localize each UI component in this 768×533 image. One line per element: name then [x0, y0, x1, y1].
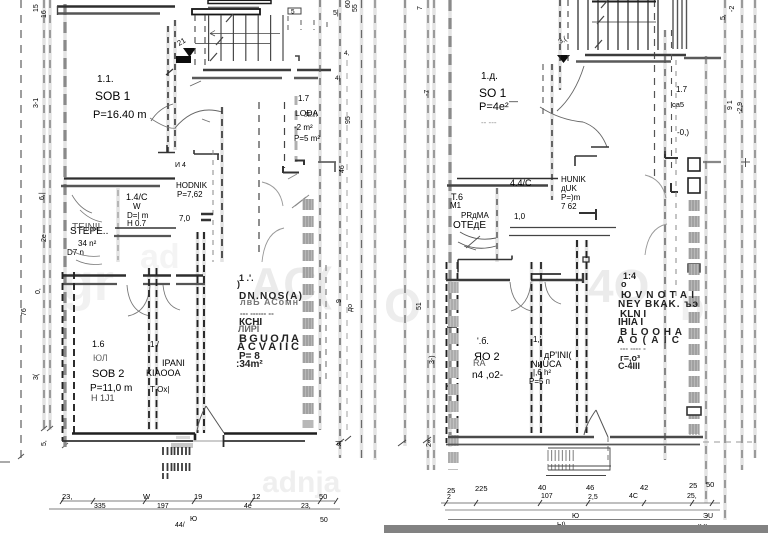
svg-text:225: 225 — [475, 484, 488, 493]
room label stepenice — [67, 222, 108, 257]
svg-text:SO 1: SO 1 — [479, 86, 507, 100]
svg-text:Ю: Ю — [190, 516, 197, 523]
bottom gray bar — [384, 525, 768, 533]
svg-text:95: 95 — [345, 116, 352, 124]
svg-text:2: 2 — [447, 494, 451, 501]
svg-text:OTEдE: OTEдE — [453, 220, 486, 231]
loggia corner2 right plan — [671, 183, 678, 192]
svg-text:23,: 23, — [301, 503, 311, 510]
dimension line row2 right — [445, 509, 720, 511]
terrace door swing — [197, 406, 224, 433]
room label kupaonica — [146, 340, 185, 394]
room label hodnik right — [561, 175, 587, 211]
svg-text:PRдMA: PRдMA — [461, 211, 489, 220]
wall soba2 top thick right — [446, 273, 583, 283]
wall piece above soba2 right — [458, 256, 512, 273]
door threshold gray — [171, 443, 193, 448]
svg-text:'.б.: '.б. — [477, 336, 489, 346]
svg-text:107: 107 — [541, 493, 553, 500]
svg-text:5|: 5| — [333, 10, 339, 17]
projection line left margin — [20, 0, 22, 458]
door jamb hodnik — [201, 214, 213, 220]
wall dashed soba2 left pair right-plan — [446, 262, 448, 443]
stairs top bar — [592, 1, 656, 3]
dim numbers right row3 — [557, 513, 713, 530]
kupaonica door swing — [163, 285, 180, 310]
stairs walk line — [195, 43, 270, 45]
svg-text:-2,9: -2,9 — [737, 102, 744, 114]
dimension line row1 right — [441, 502, 720, 504]
svg-text:LOĐA: LOĐA — [295, 108, 318, 118]
stairs treads right plan — [578, 0, 658, 50]
room label dnevni right — [617, 271, 698, 371]
stairs arrow — [557, 55, 570, 63]
loggia wall seg — [703, 161, 721, 163]
wall dashed kupaonica right pair — [576, 240, 578, 433]
door jambs right edge — [688, 158, 700, 171]
svg-text:1.6: 1.6 — [92, 339, 105, 349]
projection line right-plan left margin — [404, 0, 406, 446]
loggia corner right plan — [665, 151, 678, 158]
svg-text:1.д.: 1.д. — [481, 71, 498, 82]
svg-text:И 4: И 4 — [175, 162, 186, 169]
svg-text:С-4ІІІ: С-4ІІІ — [618, 361, 640, 371]
projection line — [724, 0, 726, 520]
room label hodnik — [176, 181, 208, 223]
wall corner ne right — [575, 147, 609, 166]
projection line — [433, 0, 435, 470]
soba2 door swing — [127, 285, 150, 316]
room label wc — [126, 192, 149, 228]
entry door swing — [151, 81, 222, 128]
svg-text:P=)m: P=)m — [561, 193, 581, 202]
svg-text:3-1: 3-1 — [33, 98, 40, 108]
wall wc top thick right — [447, 184, 548, 187]
room label kupaonica right — [529, 335, 571, 386]
wall nib above loggia — [295, 56, 299, 61]
stairs landing bar — [208, 0, 271, 3]
dashed line x654 — [654, 0, 656, 180]
svg-text:1 .'.: 1 .'. — [239, 273, 254, 283]
svg-text:P=5 п: P=5 п — [529, 377, 550, 386]
svg-text:23,: 23, — [62, 492, 72, 501]
svg-text:P=4е²: P=4е² — [479, 101, 509, 113]
wc left dashed wall — [117, 190, 119, 260]
svg-text:3-): 3-) — [429, 355, 436, 364]
margin dashed right — [361, 0, 363, 458]
wall bottom outer right — [448, 436, 703, 439]
svg-text:42: 42 — [640, 483, 648, 492]
corner tick — [166, 69, 173, 75]
wall living top inner — [192, 77, 318, 80]
stairs mid line — [210, 31, 280, 37]
svg-text:H 0.7: H 0.7 — [127, 219, 147, 228]
corridor right dashed wall 2 — [212, 150, 214, 262]
room label soba2 — [90, 339, 132, 403]
svg-text:-7: -7 — [424, 90, 431, 96]
dimension line row2 — [49, 508, 340, 510]
svg-text:25,: 25, — [687, 493, 697, 500]
svg-text:3(: 3( — [33, 373, 40, 380]
svg-text:4С: 4С — [629, 493, 638, 500]
svg-text:7,0: 7,0 — [179, 214, 191, 223]
svg-text:2,5: 2,5 — [588, 494, 598, 501]
svg-text:Ю: Ю — [572, 513, 579, 520]
svg-text:P=7,62: P=7,62 — [177, 190, 203, 199]
loggia corner left — [283, 166, 299, 173]
terrace door swing big right — [645, 175, 667, 255]
svg-text:1,': 1,' — [533, 335, 542, 344]
svg-text:—: — — [509, 96, 518, 106]
svg-text:SOB 2: SOB 2 — [92, 368, 124, 380]
room label stepenice right — [450, 192, 489, 231]
svg-text:ЮЛ: ЮЛ — [93, 353, 108, 363]
svg-text:7: 7 — [417, 6, 424, 10]
stairs thin line between bars — [208, 6, 259, 8]
projection line — [664, 30, 666, 460]
corridor right dashed wall — [221, 107, 223, 262]
svg-text:6,|: 6,| — [39, 192, 46, 200]
projection line — [43, 0, 45, 430]
kupaonica door swing right — [545, 282, 561, 304]
room label soba1 right — [479, 71, 518, 127]
dim numbers row3 — [175, 516, 328, 529]
svg-text:44/: 44/ — [175, 522, 185, 529]
dimension line row1 — [61, 500, 335, 502]
svg-text:TEINII: TEINII — [72, 222, 100, 233]
svg-text:7 62: 7 62 — [561, 202, 577, 211]
watermark — [62, 238, 704, 499]
wall soba1 top inner — [57, 12, 160, 15]
svg-text:о: о — [621, 279, 627, 289]
wall axis wide dashed — [448, 0, 451, 447]
svg-text:46: 46 — [586, 483, 594, 492]
loggia label right — [672, 85, 689, 137]
dimension ticks right — [444, 500, 714, 506]
svg-text:лвЬ АСомн: лвЬ АСомн — [240, 297, 298, 307]
dimension ticks — [60, 498, 338, 504]
wall corner mid right — [579, 209, 596, 220]
stairs entry block — [176, 56, 191, 63]
wall bottom inner — [62, 440, 305, 442]
svg-text:46: 46 — [339, 165, 346, 173]
svg-text:--- ---- -: --- ---- - — [620, 344, 646, 353]
dashed line x347 gray — [346, 60, 348, 430]
svg-text:4е: 4е — [244, 503, 252, 510]
room label dnevni boravak — [236, 273, 302, 370]
svg-text:-- ---: -- --- — [481, 118, 497, 127]
stair dashed sides — [559, 0, 561, 90]
svg-text:ІPANI: ІPANI — [162, 358, 185, 368]
svg-text:1.7: 1.7 — [676, 85, 688, 94]
hatch wall top of loggia right — [673, 0, 687, 49]
svg-text:50: 50 — [319, 492, 327, 501]
stair side dashed — [167, 26, 169, 152]
svg-text:Т Ox|: Т Ox| — [150, 385, 169, 394]
dashed loggia west jamb — [258, 102, 260, 258]
svg-text:-0,): -0,) — [677, 128, 689, 137]
exterior steps right — [548, 450, 573, 470]
stairs mid line — [592, 21, 656, 23]
wall dashed kupaonica right pair — [197, 232, 199, 433]
svg-text:9: 9 — [336, 299, 343, 303]
dim numbers right row2 — [447, 493, 697, 501]
svg-text:HUNIK: HUNIK — [561, 175, 587, 184]
svg-text:15: 15 — [33, 4, 40, 12]
loggia west wall axis — [295, 96, 298, 162]
svg-text:5,: 5, — [41, 440, 48, 446]
end ticks mid — [336, 436, 431, 446]
stair scribbles right — [458, 232, 496, 250]
hatched wall band right-plan left — [448, 282, 458, 470]
soba2 door swing right — [510, 282, 531, 311]
svg-text:W: W — [133, 202, 141, 211]
below-wall dash x608 — [607, 437, 609, 460]
svg-text:1 /: 1 / — [150, 340, 160, 349]
svg-text:): ) — [237, 279, 240, 289]
svg-text:1.1.: 1.1. — [97, 74, 114, 85]
wall living top outer — [203, 69, 331, 72]
terrace door swing big — [262, 182, 284, 262]
room label wc right — [510, 178, 532, 221]
svg-text:до: до — [347, 304, 354, 312]
svg-text:40: 40 — [538, 483, 546, 492]
svg-text:|,6 h²: |,6 h² — [533, 368, 551, 377]
wall bottom outer — [72, 434, 317, 441]
stair side dashed 2 — [174, 20, 176, 150]
projection line — [49, 0, 51, 430]
wall dashed kupaonica pair right — [531, 262, 533, 433]
dashed line x326 — [325, 265, 327, 385]
wall hodnik top outer — [64, 177, 175, 179]
margin end ticks — [0, 426, 68, 462]
door swing bottom right — [584, 410, 608, 437]
wall soba2 top outer right — [531, 273, 561, 275]
dimension line row3 right — [448, 519, 710, 521]
projection line — [705, 56, 707, 503]
slash marks terrace — [288, 174, 309, 208]
projection line — [675, 60, 677, 300]
projection line — [427, 0, 429, 470]
svg-text:5,: 5, — [720, 14, 727, 20]
svg-text:12: 12 — [252, 492, 260, 501]
svg-text::34m²: :34m² — [236, 359, 263, 370]
svg-text:51: 51 — [416, 302, 423, 310]
svg-text:4.4/C: 4.4/C — [510, 178, 532, 188]
stairs hatch marks — [210, 14, 233, 61]
wall dashed soba2 left pair — [62, 272, 64, 441]
wall bottom dashes to edge — [703, 441, 752, 443]
projection line — [754, 0, 756, 458]
svg-text:55: 55 — [352, 4, 359, 12]
band nib — [688, 264, 700, 272]
svg-text:0,: 0, — [35, 288, 42, 294]
wall dashed kupaonica left pair — [148, 268, 150, 430]
stairs landing bar 2 — [192, 9, 260, 15]
wall top outer right — [585, 54, 686, 57]
svg-text:2е: 2е — [41, 234, 48, 242]
loggia dashed boundary — [339, 0, 341, 458]
margin dashed right2 — [374, 0, 376, 460]
room label soba2 right — [472, 336, 503, 381]
svg-text:HODNIK: HODNIK — [176, 181, 208, 190]
svg-text:М1: М1 — [450, 201, 462, 210]
wall soba1 top outer — [57, 5, 175, 7]
door nibs right plan left wall — [447, 327, 457, 386]
corridor walls right — [509, 228, 616, 236]
loggia corner mid — [295, 160, 305, 165]
stairs direction arrow — [183, 48, 196, 57]
svg-text:-2 m²: -2 m² — [294, 123, 313, 132]
svg-text:P=5 m²: P=5 m² — [294, 134, 320, 143]
svg-text:RA: RA — [473, 358, 486, 368]
wall piece hodnik top — [194, 150, 219, 160]
room label soba1 — [93, 74, 147, 121]
svg-text:9 1: 9 1 — [727, 100, 734, 110]
svg-text:1.4/C: 1.4/C — [126, 192, 148, 202]
stairs hatch marks — [595, 0, 608, 48]
dim numbers right row1 — [447, 480, 714, 495]
wall bottom inner right — [446, 444, 700, 446]
wall wc top thin right — [457, 178, 558, 180]
stair side dashed 4 — [204, 15, 206, 70]
svg-text:60: 60 — [345, 0, 352, 8]
stairs treads — [209, 15, 283, 61]
svg-text:25: 25 — [689, 481, 697, 490]
wall nib — [687, 407, 701, 415]
svg-text:335: 335 — [94, 503, 106, 510]
dashed line x320 — [319, 0, 321, 430]
svg-text:19: 19 — [194, 492, 202, 501]
svg-text:16: 16 — [41, 10, 48, 18]
svg-text:50: 50 — [706, 480, 714, 489]
exterior steps dash grid — [163, 447, 190, 479]
svg-text:76: 76 — [21, 308, 28, 316]
svg-text:SOB 1: SOB 1 — [95, 89, 131, 103]
svg-text:5: 5 — [291, 9, 295, 16]
stair scribbles — [70, 195, 102, 265]
dashed loggia west wall — [284, 102, 286, 168]
svg-text:P=16.40 m: P=16.40 m — [93, 109, 147, 121]
projection line — [741, 0, 743, 470]
svg-text:H 1J1: H 1J1 — [91, 393, 115, 403]
svg-text:n4 ,о2-: n4 ,о2- — [472, 370, 503, 381]
svg-text:дUK: дUK — [561, 184, 577, 193]
dim numbers row2 — [94, 503, 311, 510]
svg-text:1,0: 1,0 — [514, 212, 526, 221]
short dashes above loggia — [288, 16, 327, 30]
svg-text:-2: -2 — [729, 6, 736, 12]
svg-text:ЭU: ЭU — [703, 513, 713, 520]
svg-text:50: 50 — [320, 517, 328, 524]
wall soba2 top outer — [62, 274, 203, 276]
wall soba2 top inner — [62, 283, 205, 285]
entry door swing right — [540, 66, 607, 147]
hatched wall band — [303, 199, 314, 428]
loggia corner right — [318, 162, 336, 172]
svg-text:KIAOOA: KIAOOA — [146, 368, 181, 378]
wall top inner right — [576, 58, 721, 62]
dim numbers row1 — [62, 492, 327, 501]
hatched band ticks — [304, 199, 313, 414]
svg-text:W: W — [143, 492, 151, 501]
svg-text:197: 197 — [157, 503, 169, 510]
svg-text:4,: 4, — [344, 50, 350, 57]
wall stepenice top — [115, 227, 176, 229]
window mark top — [288, 8, 301, 14]
wall stepenice bottom — [114, 235, 171, 237]
wall corner nw — [158, 145, 175, 153]
steps outline right — [546, 448, 611, 476]
svg-text:са5: са5 — [672, 100, 684, 109]
svg-text:1.7: 1.7 — [298, 94, 310, 103]
svg-text:ad: ad — [140, 238, 180, 276]
hatched wall band right — [689, 200, 700, 434]
cross mark — [741, 158, 750, 167]
wall nib top right — [583, 257, 589, 262]
room label loggia — [294, 94, 320, 143]
wc right dashed wall — [496, 188, 498, 262]
svg-text:я|: я| — [336, 440, 343, 446]
svg-text:adnja: adnja — [262, 466, 341, 499]
wall hodnik top inner — [61, 185, 160, 187]
wall axis (wide gray dashed) — [63, 4, 66, 447]
entry swing lower arc — [150, 118, 210, 128]
stair side dashed 3 — [194, 15, 196, 70]
svg-text:34 n²: 34 n² — [78, 239, 97, 248]
